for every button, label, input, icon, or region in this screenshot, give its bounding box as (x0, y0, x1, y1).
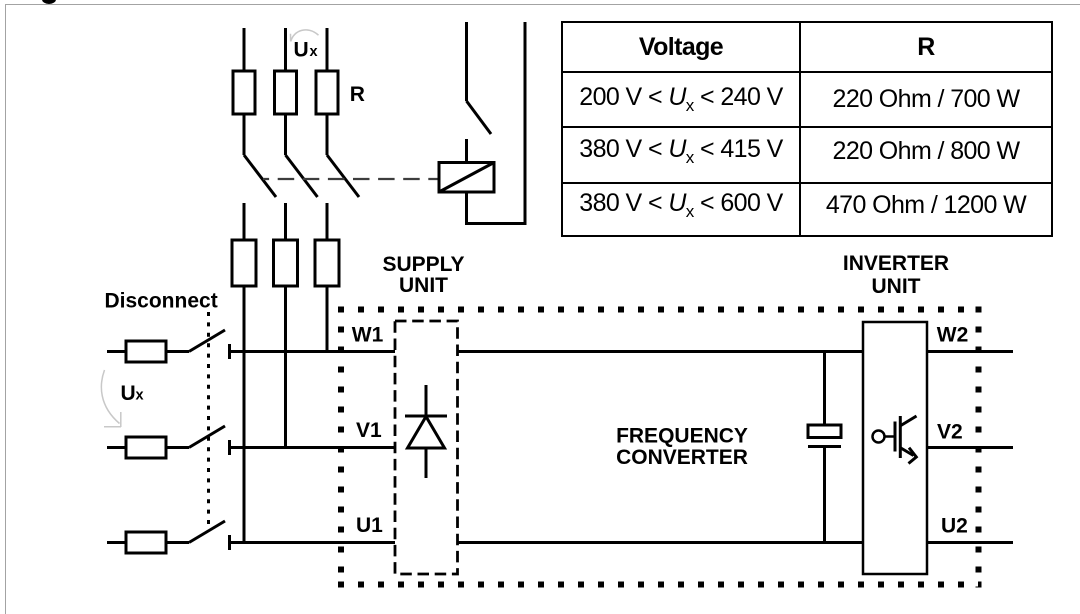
supply unit dashed box U1 (395, 321, 458, 574)
wire V2 output (927, 446, 1013, 449)
disconnect switch U blade (189, 521, 225, 543)
svg-text:W1: W1 (352, 324, 384, 347)
contactor switch phase2 (286, 155, 318, 197)
rectifier diode D1 cathode bar (405, 415, 447, 418)
disconnect switch W blade (189, 330, 225, 352)
fuse F2 phase2 (274, 240, 298, 286)
rectifier diode D1 cathode lead (425, 385, 428, 416)
wire phase1 above fuse (243, 203, 246, 240)
svg-text:V1: V1 (356, 419, 382, 442)
wire capacitor top lead (823, 352, 826, 426)
svg-text:x: x (136, 388, 144, 404)
resistor R phase1 (233, 71, 255, 114)
junction tick V1 (228, 440, 231, 455)
frequency converter dotted enclosure (338, 307, 982, 313)
rectifier diode D1 anode lead (425, 448, 428, 478)
wire DC bus bottom (458, 541, 864, 544)
contactor coil K1 (439, 163, 494, 193)
capacitor C1 top plate (808, 425, 841, 438)
fuse F1 phase1 (232, 240, 256, 286)
contactor switch phase1 (244, 155, 276, 197)
svg-text:SUPPLY: SUPPLY (382, 253, 464, 276)
wire U fuse to switch (166, 541, 189, 544)
contactor aux switch blade (467, 101, 492, 134)
wire V1 input (107, 446, 126, 449)
wire W2 output (927, 350, 1013, 353)
transistor Q1 gate bar (894, 422, 897, 452)
junction tick U1 (228, 535, 231, 550)
wire DC bus top (458, 350, 864, 353)
wire phase3 below resistor (326, 114, 329, 155)
wire V1 bus (230, 446, 396, 449)
svg-text:UNIT: UNIT (399, 274, 448, 297)
wire coil bottom (467, 22, 526, 224)
control dashed link (contactor coil to switches) (263, 178, 439, 180)
svg-text:Disconnect: Disconnect (105, 289, 218, 312)
rectifier diode D1 triangle (408, 417, 445, 449)
transistor Q1 collector (900, 416, 917, 426)
transistor Q1 body bar (899, 416, 902, 458)
wire phase2 top (284, 28, 287, 71)
svg-text:UNIT: UNIT (872, 275, 921, 298)
annotation arrow left (gray arc) (101, 370, 121, 427)
wire aux switch to coil (465, 139, 468, 163)
wire phase1 below resistor (243, 114, 246, 155)
wire phase2 below resistor (284, 114, 287, 155)
wire capacitor bottom lead (823, 447, 826, 543)
disconnect switch V blade (189, 426, 225, 448)
capacitor C1 bottom plate (808, 445, 841, 448)
svg-text:INVERTER: INVERTER (843, 252, 949, 275)
svg-text:U1: U1 (356, 514, 383, 537)
disconnect boundary dotted line (207, 312, 210, 528)
contactor coil diagonal (439, 163, 494, 193)
transistor Q1 emitter (900, 448, 914, 456)
svg-text:FREQUENCY: FREQUENCY (616, 425, 748, 448)
wire phase1 to U1 bus (243, 286, 246, 543)
wire V fuse to switch (166, 446, 189, 449)
svg-text:W2: W2 (937, 324, 969, 347)
svg-text:CONVERTER: CONVERTER (616, 446, 748, 469)
wire U1 input (107, 541, 126, 544)
wire phase3 top (326, 28, 329, 71)
wire phase3 to W1 bus (326, 286, 329, 352)
wire W1 bus (230, 350, 396, 353)
resistor selection table (561, 21, 1053, 237)
fuse FW phase W (126, 341, 166, 362)
svg-text:U: U (294, 39, 309, 62)
fuse FV phase V (126, 437, 166, 458)
wire W fuse to switch (166, 350, 189, 353)
wire W1 input (107, 350, 126, 353)
wire phase1 top (243, 28, 246, 71)
junction tick W1 (228, 344, 231, 359)
resistor R phase2 (275, 71, 297, 114)
svg-text:R: R (350, 83, 365, 106)
resistor R phase3 (316, 71, 338, 114)
svg-text:V2: V2 (937, 421, 963, 444)
annotation arrow top (gray arc) (291, 30, 319, 42)
fuse F3 phase3 (315, 240, 339, 286)
wire U2 output (927, 541, 1013, 544)
wire phase3 above fuse (326, 203, 329, 240)
wire phase2 above fuse (284, 203, 287, 240)
svg-text:x: x (310, 44, 318, 60)
svg-text:U: U (121, 382, 136, 405)
transistor Q1 emitter arrow (909, 448, 917, 464)
transistor Q1 gate lead (885, 435, 895, 438)
transistor Q1 gate circle (873, 431, 885, 443)
contactor switch phase3 (327, 155, 359, 197)
wire U1 bus (230, 541, 396, 544)
svg-text:U2: U2 (941, 515, 968, 538)
contactor aux switch wire top (465, 22, 468, 101)
wire phase2 to V1 bus (284, 286, 287, 448)
fuse FU phase U (126, 532, 166, 553)
inverter unit box U2 (863, 322, 927, 574)
